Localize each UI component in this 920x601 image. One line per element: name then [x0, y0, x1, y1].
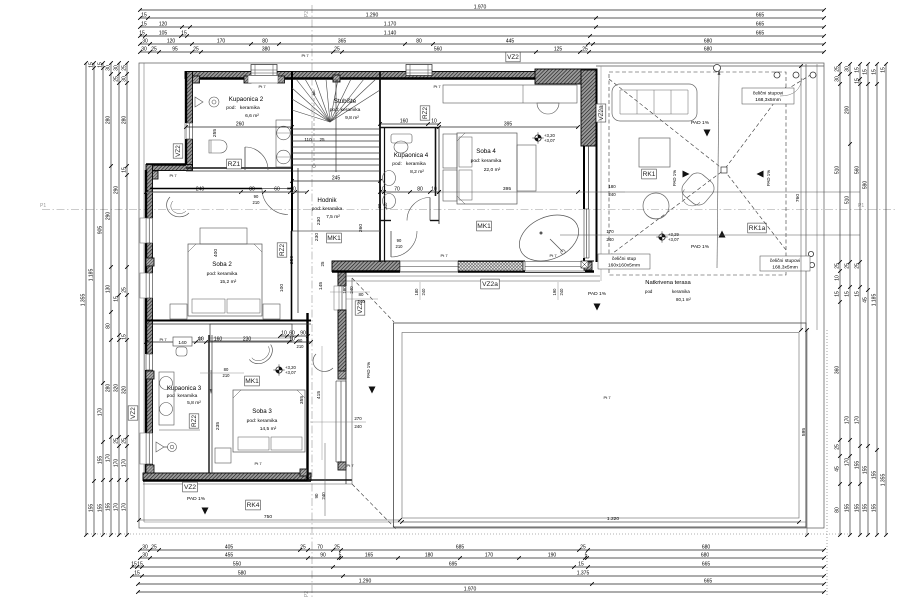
svg-text:pod keramika: pod keramika [167, 393, 198, 399]
wall bottom exterior [143, 473, 311, 481]
svg-text:10: 10 [289, 337, 295, 343]
label RK1 terrace [642, 169, 657, 179]
label VZ2 top [506, 52, 520, 62]
dim row 170/240 right [560, 234, 860, 236]
svg-text:240: 240 [349, 286, 354, 294]
window in left wall 3 (kupaonica 3) [145, 433, 154, 464]
svg-text:pod: keramika: pod: keramika [471, 158, 502, 164]
svg-text:+3,07: +3,07 [668, 237, 679, 242]
svg-text:70: 70 [394, 187, 400, 193]
bottom wall outer face lines [143, 483, 352, 485]
svg-text:280: 280 [122, 116, 128, 125]
svg-text:80: 80 [359, 292, 364, 297]
wall top exterior [185, 72, 597, 79]
svg-text:105: 105 [159, 31, 168, 37]
svg-text:RZ2: RZ2 [191, 415, 198, 428]
plot boundary rectangle [139, 63, 824, 528]
svg-text:15,2 m²: 15,2 m² [220, 279, 237, 285]
svg-text:Pt 7: Pt 7 [346, 463, 354, 468]
svg-text:90: 90 [300, 331, 306, 337]
svg-text:25: 25 [151, 47, 157, 53]
svg-text:30: 30 [106, 65, 112, 71]
window in upper-left wall [185, 123, 194, 139]
svg-text:360: 360 [835, 366, 841, 375]
terrace chair 2 [643, 193, 669, 219]
dim line 90-240 below lower wing [324, 443, 326, 516]
column lower-right bottom [338, 462, 346, 470]
svg-text:190: 190 [552, 288, 557, 296]
soba3 bed [233, 390, 305, 452]
dim row kup2 260 [186, 126, 292, 128]
svg-text:260: 260 [358, 224, 364, 232]
label MK1 lower wing [245, 376, 260, 386]
svg-text:90: 90 [377, 203, 382, 208]
svg-text:170: 170 [606, 229, 614, 234]
column right of window1 [278, 76, 285, 83]
svg-text:15: 15 [855, 291, 861, 297]
soba2 door arc [262, 189, 288, 215]
svg-text:6,6 m²: 6,6 m² [245, 113, 259, 119]
svg-text:VZ2: VZ2 [184, 484, 196, 491]
svg-text:15: 15 [134, 571, 140, 577]
dim 595 right of lower rect [806, 330, 808, 535]
dim row soba2 240 [146, 191, 307, 193]
svg-text:170: 170 [98, 408, 104, 417]
svg-text:25: 25 [114, 76, 120, 82]
dim row hodnik long [146, 192, 307, 194]
svg-text:240: 240 [559, 288, 564, 296]
soba4 bed [457, 133, 517, 204]
window sill recess below window1 [248, 76, 278, 84]
dim top row 4 (15 105 15 / 1.140 / 665) [140, 35, 824, 37]
svg-text:30: 30 [142, 545, 148, 551]
svg-text:80: 80 [417, 187, 423, 193]
svg-text:110: 110 [304, 137, 312, 142]
svg-text:155: 155 [855, 504, 861, 513]
wall bottom of right wing [332, 261, 400, 272]
svg-text:665: 665 [756, 31, 765, 37]
svg-text:90: 90 [320, 553, 326, 559]
svg-text:Pt 7: Pt 7 [258, 84, 266, 89]
svg-text:445: 445 [506, 39, 515, 45]
svg-text:VZ2a: VZ2a [482, 281, 498, 288]
svg-text:145: 145 [318, 282, 324, 290]
svg-text:15: 15 [137, 562, 143, 568]
window in right wing bottom wall 2 [525, 261, 585, 273]
svg-text:405: 405 [225, 545, 234, 551]
svg-text:Pt 7: Pt 7 [159, 337, 167, 342]
svg-text:9,8 m²: 9,8 m² [345, 115, 359, 121]
section line P2 (vertical dash-dot) [311, 5, 313, 597]
plot inner edge bottom [144, 521, 806, 523]
svg-text:RZ1: RZ1 [228, 161, 241, 168]
svg-text:RZ2: RZ2 [422, 107, 429, 120]
svg-text:170: 170 [845, 416, 851, 425]
svg-text:25: 25 [580, 545, 586, 551]
label VZ2a below right wing wall [481, 279, 500, 289]
dim row soba2 bottom 140-230 [146, 341, 311, 343]
svg-text:680: 680 [704, 47, 713, 53]
svg-text:90: 90 [298, 338, 303, 343]
soba4 foot bench [517, 145, 536, 191]
dim left col 4 (30 280 290 130 80 280 170 155) [110, 63, 112, 535]
soba4 chair [537, 103, 559, 114]
svg-text:255: 255 [212, 129, 218, 137]
dotted plot offset bottom [85, 533, 850, 535]
right wing east wall lower [583, 146, 585, 262]
svg-text:1.290: 1.290 [359, 579, 372, 585]
svg-text:230: 230 [243, 337, 252, 343]
label VZ2 vertical right strip [355, 301, 365, 315]
svg-text:25: 25 [835, 263, 841, 269]
dim right col D (15 590 ...) [867, 64, 869, 535]
window in right wing bottom wall [400, 260, 458, 273]
svg-text:245: 245 [332, 176, 341, 182]
svg-text:180: 180 [425, 553, 434, 559]
svg-text:80: 80 [262, 39, 268, 45]
svg-text:15: 15 [122, 167, 128, 173]
svg-text:30: 30 [142, 553, 148, 559]
staircase Stubiste [335, 79, 337, 172]
window wall east of soba 3 (VZ2) [335, 381, 347, 462]
wall lower-right inner leaf [306, 313, 308, 480]
window in left wall 1 [145, 218, 154, 243]
svg-text:170: 170 [217, 39, 226, 45]
svg-text:1.140: 1.140 [384, 31, 397, 37]
svg-text:750: 750 [264, 514, 272, 520]
svg-text:10: 10 [431, 187, 437, 193]
svg-text:10: 10 [290, 187, 296, 193]
svg-text:160x160x5mm: 160x160x5mm [608, 263, 640, 269]
terrace sofa [612, 84, 697, 121]
svg-text:590: 590 [863, 181, 869, 190]
svg-text:155: 155 [845, 504, 851, 513]
dim bottom row 1 (30 25 405 25 70 25 685 25 680) [140, 549, 824, 551]
label RZ2 vertical kup4 [420, 106, 430, 120]
svg-text:665: 665 [756, 22, 765, 28]
soba2 nightstand left [170, 304, 187, 319]
svg-text:10: 10 [281, 331, 287, 337]
svg-text:80: 80 [416, 39, 422, 45]
svg-text:155: 155 [855, 461, 861, 470]
label RK1a terrace [748, 223, 767, 233]
dim row 395 soba4 [439, 126, 578, 128]
svg-text:15: 15 [141, 13, 147, 19]
dim right col B (30 200 360 ...) [849, 64, 851, 535]
svg-text:15: 15 [872, 69, 878, 75]
svg-text:pod: keramika: pod: keramika [312, 206, 343, 212]
svg-text:pod: keramika: pod: keramika [226, 105, 260, 111]
terrace dashed boundary [609, 72, 786, 275]
svg-text:+3,07: +3,07 [544, 138, 555, 143]
section line P1 (horizontal dash-dot) [42, 209, 895, 211]
svg-text:VZ2a: VZ2a [598, 105, 605, 121]
svg-text:30: 30 [142, 39, 148, 45]
kupaonica2 basin counter [276, 120, 291, 167]
svg-text:210: 210 [396, 244, 404, 249]
wall right wing east exterior [581, 70, 597, 146]
label RK4 lower terrace [246, 500, 261, 510]
svg-text:210: 210 [253, 200, 261, 205]
dim 1.220 inside rect [402, 521, 799, 523]
svg-text:25: 25 [300, 545, 306, 551]
svg-text:1.290: 1.290 [366, 13, 379, 19]
svg-text:Pt 7: Pt 7 [254, 461, 262, 466]
dim left col 3 (15 905 170 155) [102, 63, 104, 535]
column left wall kup3 [146, 371, 154, 379]
window VZ2a crosshatch segment [458, 262, 523, 272]
svg-text:120: 120 [159, 22, 168, 28]
terrace chair 1 [675, 169, 718, 212]
column square left wall [146, 258, 154, 266]
label MK1 hodnik [327, 233, 342, 243]
soba2 armchair [167, 197, 189, 217]
svg-text:695: 695 [449, 562, 458, 568]
svg-text:Pt 7: Pt 7 [440, 253, 448, 258]
svg-text:290: 290 [114, 186, 120, 195]
svg-text:280: 280 [106, 116, 112, 125]
svg-text:280: 280 [106, 384, 112, 393]
wall kupaonica2 south [186, 167, 292, 169]
window in left wall 2 [145, 273, 154, 298]
label RZ2 vertical soba2 [277, 243, 287, 257]
svg-text:270: 270 [354, 416, 362, 421]
window in east wall [583, 209, 590, 258]
svg-text:130: 130 [106, 285, 112, 294]
svg-text:355: 355 [299, 396, 305, 404]
dim left col 6 (25 30 ...) [126, 63, 128, 535]
svg-text:RK4: RK4 [247, 502, 260, 509]
column below step wall [150, 171, 158, 179]
survey marker MK1 lower wing [276, 367, 282, 373]
dim row hodnik south 10 60 90 [280, 335, 308, 337]
svg-text:čelični stupovi: čelični stupovi [770, 258, 800, 264]
svg-text:MK1: MK1 [245, 378, 259, 385]
svg-text:P2: P2 [304, 11, 310, 17]
svg-text:400: 400 [213, 249, 219, 257]
svg-text:170: 170 [855, 416, 861, 425]
survey marker MK1 right wing [535, 135, 541, 141]
svg-text:230: 230 [314, 233, 320, 241]
column left of window1 [244, 76, 251, 83]
kupaonica3 tap [168, 443, 177, 452]
svg-text:155: 155 [863, 504, 869, 513]
dashed diagonal building corner to rect corner [352, 278, 394, 322]
svg-text:Kupaonica 2: Kupaonica 2 [229, 96, 264, 103]
svg-text:15: 15 [578, 562, 584, 568]
svg-text:665: 665 [704, 579, 713, 585]
svg-text:RK1: RK1 [643, 171, 656, 178]
svg-text:155: 155 [872, 471, 878, 480]
svg-text:260: 260 [236, 122, 245, 128]
plot inner edge left [143, 63, 145, 522]
wall left upper exterior [186, 72, 193, 169]
svg-text:30: 30 [835, 76, 841, 82]
dim top row 1 (1.970) [140, 9, 824, 11]
svg-text:290: 290 [106, 212, 112, 221]
svg-text:760: 760 [795, 194, 801, 202]
door opening soba2 north [287, 188, 292, 190]
window in left wall small [145, 354, 154, 370]
svg-text:30: 30 [114, 65, 120, 71]
svg-text:15: 15 [835, 291, 841, 297]
svg-text:RK1a: RK1a [749, 225, 766, 232]
window dims below VZ2a [419, 282, 421, 300]
svg-text:15: 15 [98, 62, 104, 68]
soba2 bed [188, 244, 262, 316]
terrace post circle top [714, 65, 721, 72]
svg-text:1.220: 1.220 [607, 516, 620, 522]
svg-text:155: 155 [89, 504, 95, 513]
svg-text:14,5 m²: 14,5 m² [260, 426, 277, 432]
svg-text:45: 45 [863, 297, 869, 303]
dim top row 2 (1.290 / 665) [140, 17, 824, 19]
svg-text:PAD 1%: PAD 1% [187, 496, 206, 502]
wall stair east [379, 72, 381, 263]
wall hodnik west [291, 231, 293, 321]
column end of bottom wall [300, 469, 307, 476]
svg-text:30: 30 [141, 47, 147, 53]
svg-text:60: 60 [274, 187, 280, 193]
lower terrace rectangle outer [394, 323, 807, 527]
svg-text:680: 680 [702, 545, 711, 551]
svg-text:240: 240 [608, 192, 616, 197]
svg-text:665: 665 [756, 13, 765, 19]
label VZ2 vertical upper-left [173, 144, 183, 158]
wall step left [146, 165, 193, 171]
dim row 160/10 kup4 [380, 123, 439, 125]
svg-text:keramika: keramika [672, 289, 690, 294]
dim left col 1 (1.355) [85, 63, 87, 535]
label MK1 right wing [477, 221, 492, 231]
svg-text:15: 15 [845, 291, 851, 297]
svg-text:395: 395 [503, 186, 511, 192]
terrace ridge line [717, 75, 719, 268]
terrace diagonal NW-X [609, 79, 724, 170]
wall stair west [291, 72, 293, 232]
terrace post square left [581, 261, 588, 268]
kupaonica2 door arc [245, 147, 268, 170]
svg-text:PAD 1%: PAD 1% [672, 170, 677, 186]
window W in top wall 2 [406, 65, 432, 76]
svg-text:Pt 7: Pt 7 [433, 84, 441, 89]
wall soba4 west closet line [438, 128, 440, 225]
soba3 armchair corner [313, 354, 333, 371]
svg-text:15: 15 [881, 67, 887, 73]
svg-text:210: 210 [223, 373, 231, 378]
svg-text:5: 5 [585, 553, 588, 559]
svg-text:P1: P1 [858, 203, 864, 209]
dim row 245 stair [292, 180, 380, 182]
svg-text:15: 15 [855, 67, 861, 73]
window east wall 1 [337, 286, 347, 310]
MK1 oval tub [512, 206, 586, 270]
dim bottom row 5 (1.290 / 665) [138, 583, 824, 585]
svg-text:455: 455 [225, 553, 234, 559]
svg-text:168,3x5mm: 168,3x5mm [772, 265, 798, 271]
dim row 395 soba4 lower [439, 191, 860, 193]
soba4 nightstand 1 [443, 134, 457, 168]
svg-text:380: 380 [262, 47, 271, 53]
east wall lower wing hatched mid [338, 310, 346, 371]
column square bottom-left corner [146, 465, 154, 473]
svg-text:80: 80 [249, 187, 255, 193]
svg-text:665: 665 [702, 562, 711, 568]
svg-text:pod: keramika: pod: keramika [247, 418, 278, 424]
svg-text:170: 170 [114, 503, 120, 512]
svg-text:25: 25 [835, 66, 841, 72]
wall kupaonica4 north [380, 127, 439, 129]
svg-text:90: 90 [397, 238, 402, 243]
svg-text:170: 170 [485, 553, 494, 559]
svg-text:580: 580 [238, 571, 247, 577]
dim bottom row 3 (15 15 550 695 15 665) [132, 566, 824, 568]
svg-text:10: 10 [431, 119, 437, 125]
kupaonica2 wc left [209, 140, 227, 153]
svg-text:15: 15 [114, 296, 120, 302]
kupaonica3 stool [176, 347, 187, 356]
wall kupaonica4 south area [380, 220, 391, 222]
svg-text:230: 230 [316, 217, 322, 225]
svg-text:90: 90 [254, 194, 259, 199]
dim top row 3 (120 / 1.170 / 665) [140, 26, 824, 28]
svg-text:905: 905 [98, 226, 104, 235]
dim rotated 415 east soba3 [321, 346, 323, 460]
celicni stupovi box top [742, 88, 794, 104]
soba4 nightstand 2 [443, 170, 457, 201]
kupaonica2 tap symbol [209, 97, 219, 107]
terrace X center node [721, 167, 727, 173]
dim 270/240 soba3 east [310, 421, 366, 423]
svg-text:VZ2: VZ2 [175, 145, 182, 157]
wall RZ1 shaft south / soba2 north [150, 188, 262, 190]
svg-text:25: 25 [334, 47, 340, 53]
hodnik door to MK1 [391, 231, 417, 257]
terrace post circles top right [774, 72, 780, 78]
dim top row 6 (30 25 95 25 380 25 560 125 25 680) [140, 51, 824, 53]
svg-text:550: 550 [233, 562, 242, 568]
dim right col F (15 1.355) [885, 64, 887, 535]
terrace survey marker [659, 234, 665, 240]
svg-text:15: 15 [181, 31, 187, 37]
svg-text:Soba 4: Soba 4 [476, 148, 496, 155]
kupaonica3 shower arrow [210, 370, 212, 392]
svg-text:8,2 m²: 8,2 m² [410, 169, 424, 175]
svg-text:15: 15 [131, 562, 137, 568]
svg-text:25: 25 [122, 287, 128, 293]
svg-text:1.355: 1.355 [881, 474, 887, 487]
label RZ2 vertical kup3 [189, 414, 199, 428]
svg-text:680: 680 [701, 553, 710, 559]
dim bottom row 6 (1.970) [138, 591, 824, 593]
dim bottom row 2 (30 455 90 5 165 180 170 190 5 680) [140, 557, 824, 559]
svg-text:210: 210 [297, 344, 305, 349]
svg-text:P1: P1 [40, 203, 46, 209]
column top-left corner [193, 76, 200, 83]
svg-text:PAD 1%: PAD 1% [766, 170, 771, 186]
svg-text:pod: keramika: pod: keramika [330, 107, 361, 113]
terrace top edge line [596, 65, 824, 67]
column lower-right top [338, 371, 346, 379]
svg-text:25: 25 [855, 263, 861, 269]
svg-text:15: 15 [855, 78, 861, 84]
svg-text:1.355: 1.355 [81, 294, 87, 307]
svg-text:10: 10 [198, 336, 203, 341]
soba2 dresser [200, 228, 247, 244]
leader arc to posts [780, 78, 802, 96]
terrace dashed ray beyond NE corner [786, 74, 812, 90]
lower terrace rectangle inner [402, 333, 799, 519]
